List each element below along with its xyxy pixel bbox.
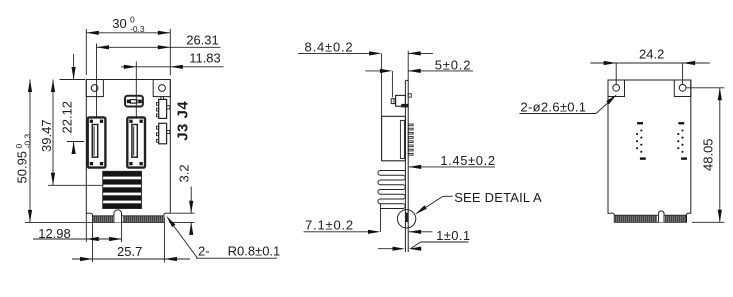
- connector body (SATA receptacle): [127, 117, 145, 167]
- height extension lines: [60, 79, 86, 81]
- dim 1±0.1: [378, 248, 397, 250]
- connector body (SATA receptacle): [88, 117, 106, 167]
- leader 2-ø2.6±0.1: [520, 113, 597, 115]
- dim 39.47: [52, 80, 54, 186]
- svg-text:2-ø2.6±0.1: 2-ø2.6±0.1: [521, 99, 587, 114]
- connector J4: [159, 99, 167, 118]
- dim 5±0.2: [391, 71, 393, 97]
- label area (hatched): [103, 171, 142, 208]
- back view solder pads group 2: [677, 122, 687, 160]
- dim 8.4±0.2: [381, 53, 383, 116]
- side view PCB: [404, 80, 406, 252]
- dim 50.95 0/-0.3: [29, 80, 31, 223]
- svg-text:J3 J4: J3 J4: [175, 101, 192, 141]
- svg-text:39.47: 39.47: [39, 119, 54, 152]
- svg-text:-0.3: -0.3: [23, 134, 33, 149]
- svg-text:22.12: 22.12: [60, 101, 75, 134]
- detail circle A: [397, 210, 415, 228]
- svg-text:5±0.2: 5±0.2: [435, 57, 471, 72]
- svg-text:1.45±0.2: 1.45±0.2: [440, 153, 495, 168]
- svg-text:8.4±0.2: 8.4±0.2: [305, 39, 354, 54]
- side view label serpentine: [378, 171, 405, 209]
- dim 22.12: [73, 54, 75, 80]
- dim 30 0/-0.3: [85, 29, 87, 75]
- svg-text:SEE DETAIL A: SEE DETAIL A: [454, 190, 542, 205]
- svg-text:R0.8±0.1: R0.8±0.1: [228, 244, 281, 259]
- back hole left: [613, 84, 620, 91]
- svg-text:24.2: 24.2: [639, 46, 664, 61]
- mounting hole right: [159, 85, 166, 92]
- svg-text:1±0.1: 1±0.1: [436, 228, 470, 243]
- dim 26.31: [96, 44, 98, 118]
- front view key notch: [114, 210, 122, 223]
- back hole right: [679, 84, 686, 91]
- svg-text:11.83: 11.83: [189, 51, 221, 66]
- svg-text:12.98: 12.98: [38, 226, 71, 241]
- dim 7.1±0.2: [380, 204, 382, 232]
- back view board outline: [608, 80, 691, 222]
- front view board outline: [86, 80, 170, 223]
- dim 11.83: [135, 62, 137, 118]
- leader 1.45±0.2: [409, 166, 495, 168]
- back view key notch: [659, 211, 665, 222]
- svg-text:3.2: 3.2: [177, 164, 192, 182]
- svg-text:48.05: 48.05: [701, 138, 716, 171]
- mounting hole left: [91, 85, 98, 92]
- svg-text:2-: 2-: [198, 244, 210, 259]
- side view SATA body: [382, 116, 406, 161]
- front view mounting ear left: [86, 80, 103, 97]
- back view gold fingers: [616, 215, 686, 222]
- leader SEE DETAIL A: [443, 195, 453, 197]
- side view connector pins: [408, 124, 413, 155]
- dim 12.98: [85, 213, 87, 242]
- back view mounting ear left: [608, 80, 625, 97]
- front view gold fingers: [94, 216, 162, 222]
- leader 2- R0.8: [196, 257, 277, 259]
- small connector top-center: [125, 96, 143, 107]
- front view mounting ear right: [153, 80, 170, 97]
- svg-text:30: 30: [112, 16, 126, 31]
- back view mounting ear right: [674, 80, 691, 97]
- dim 25.7: [92, 222, 94, 262]
- side view gold finger strip: [406, 213, 408, 222]
- svg-text:-0.3: -0.3: [130, 24, 145, 34]
- svg-text:50.95: 50.95: [15, 151, 30, 184]
- svg-text:7.1±0.2: 7.1±0.2: [305, 218, 354, 233]
- dim 48.05: [686, 87, 724, 89]
- connector J3: [159, 123, 167, 144]
- svg-text:26.31: 26.31: [186, 32, 219, 47]
- svg-text:25.7: 25.7: [117, 244, 142, 259]
- side view top connector: [396, 95, 406, 106]
- dim 24.2: [615, 63, 617, 84]
- dim 3.2: [171, 212, 194, 214]
- back view solder pads group 1: [636, 122, 646, 160]
